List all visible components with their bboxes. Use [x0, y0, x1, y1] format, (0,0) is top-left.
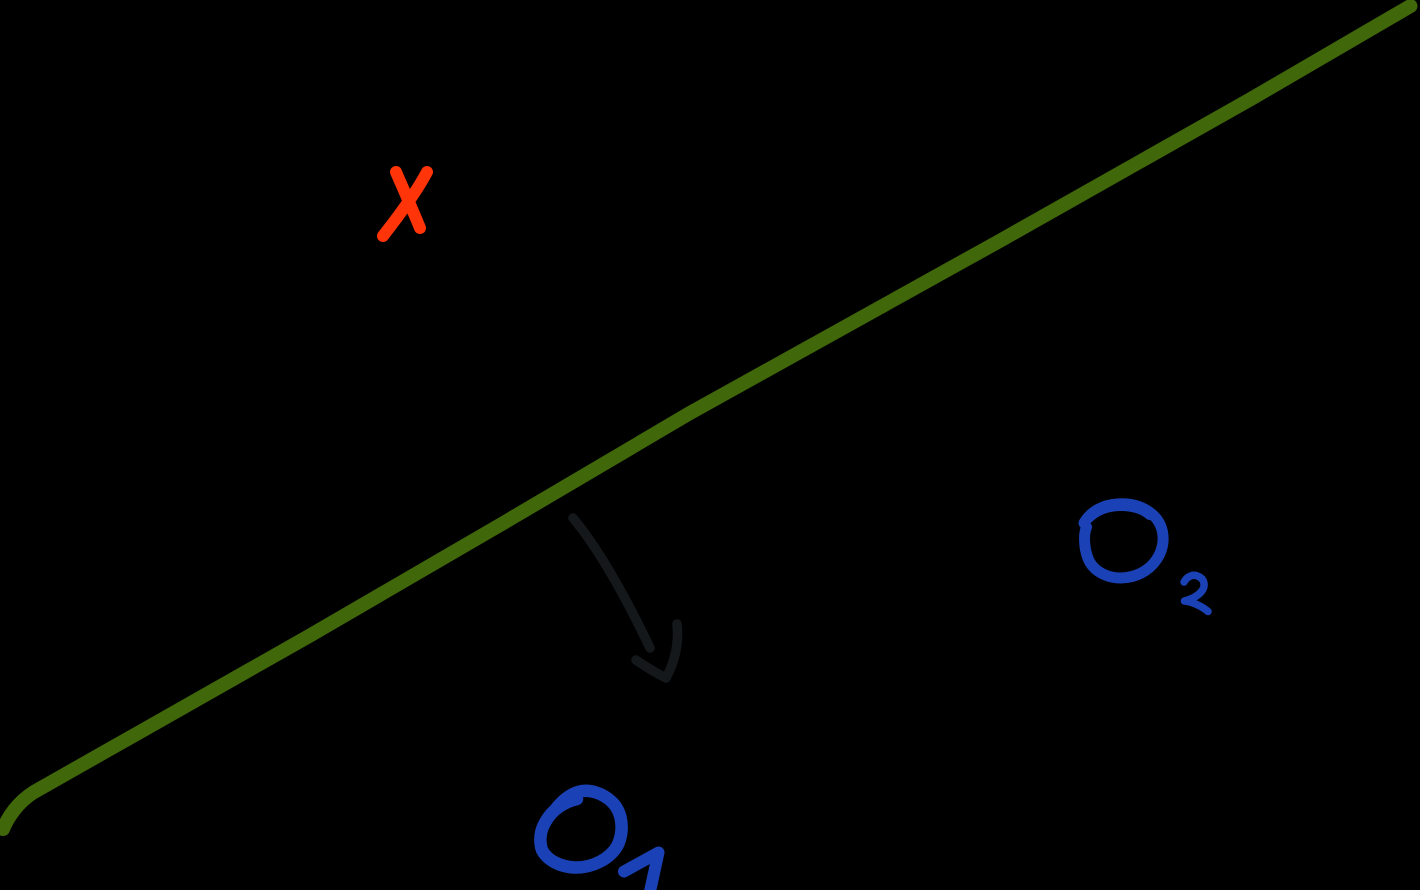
label O1 circle: [540, 791, 621, 868]
label O2 subscript 2: [1184, 575, 1208, 611]
arrow: [573, 518, 678, 678]
label O2 circle: [1084, 504, 1163, 578]
red X mark: [383, 172, 427, 236]
label O1 subscript 1: [624, 853, 659, 890]
label O2 top overlap stroke: [1085, 506, 1150, 522]
